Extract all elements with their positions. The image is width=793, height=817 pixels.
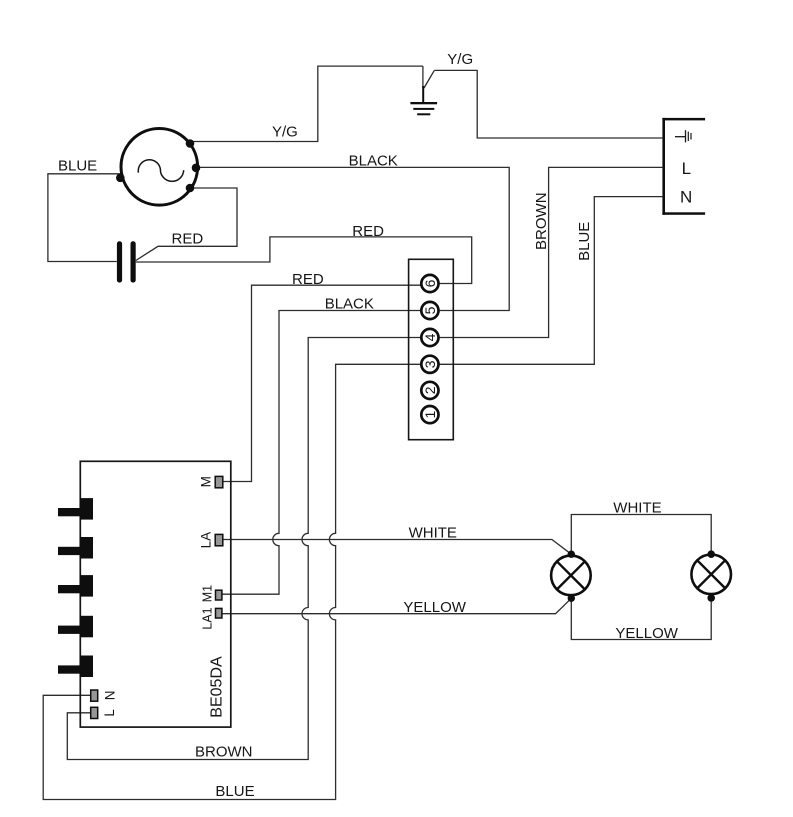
svg-text:3: 3 bbox=[422, 360, 438, 368]
svg-text:BLUE: BLUE bbox=[215, 783, 254, 800]
svg-text:1: 1 bbox=[422, 410, 438, 418]
svg-text:Y/G: Y/G bbox=[447, 51, 473, 68]
svg-text:N: N bbox=[680, 188, 692, 207]
svg-text:RED: RED bbox=[352, 223, 384, 240]
svg-text:BLUE: BLUE bbox=[576, 222, 593, 261]
svg-text:M1: M1 bbox=[201, 585, 215, 602]
svg-text:BLACK: BLACK bbox=[325, 296, 374, 313]
svg-text:6: 6 bbox=[422, 279, 438, 287]
svg-text:BLUE: BLUE bbox=[58, 157, 97, 174]
svg-text:Y/G: Y/G bbox=[272, 124, 298, 141]
svg-text:LA: LA bbox=[199, 532, 214, 549]
svg-text:WHITE: WHITE bbox=[409, 525, 457, 542]
svg-text:2: 2 bbox=[422, 386, 438, 394]
svg-text:YELLOW: YELLOW bbox=[615, 625, 678, 642]
svg-text:YELLOW: YELLOW bbox=[403, 599, 466, 616]
svg-text:L: L bbox=[682, 159, 691, 178]
svg-text:4: 4 bbox=[422, 333, 438, 341]
svg-text:RED: RED bbox=[172, 230, 204, 247]
svg-text:BE05DA: BE05DA bbox=[209, 656, 226, 718]
svg-text:N: N bbox=[103, 691, 118, 701]
svg-text:LA1: LA1 bbox=[201, 607, 215, 629]
svg-text:L: L bbox=[102, 709, 117, 717]
svg-text:M: M bbox=[199, 476, 214, 487]
svg-text:BROWN: BROWN bbox=[533, 192, 550, 250]
svg-text:BLACK: BLACK bbox=[349, 153, 398, 170]
svg-text:5: 5 bbox=[422, 306, 438, 314]
svg-text:RED: RED bbox=[292, 271, 324, 288]
svg-text:WHITE: WHITE bbox=[613, 500, 661, 517]
svg-text:BROWN: BROWN bbox=[195, 744, 253, 761]
